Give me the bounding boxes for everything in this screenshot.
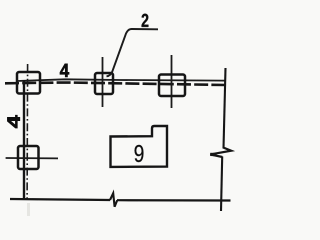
column K2 — [95, 73, 113, 94]
node A: grid centerline through column K1/K4 (vertical dash-dot) — [26, 64, 29, 199]
wire: thick dashed beam line (horizontal) — [5, 83, 226, 86]
label 4 (top) — [60, 64, 69, 77]
scan smudge — [27, 203, 30, 216]
wire: right wall line lower segment — [221, 157, 222, 212]
label 9 — [135, 145, 144, 162]
column K4 — [18, 146, 39, 169]
wire: right wall line upper segment — [224, 68, 226, 149]
callout leader for label 2 — [107, 29, 159, 76]
column K1 — [17, 72, 40, 94]
column K3 — [159, 75, 185, 97]
node C: centerline of column K3 (vertical) — [171, 55, 173, 108]
wire: bottom wall line left segment — [10, 199, 110, 200]
node D: centerline of column K4 (horizontal) — [6, 157, 58, 159]
node B: centerline of column K2 (vertical) — [102, 57, 104, 107]
break symbol on right wall — [210, 148, 231, 157]
wire: thin wall line (horizontal) — [17, 79, 225, 81]
detail region 9 outline — [111, 126, 168, 167]
label 2 — [142, 14, 149, 27]
wire: left wall line (vertical) — [23, 80, 25, 200]
break symbol on bottom wall — [110, 193, 117, 207]
wire: bottom wall line right segment — [117, 199, 231, 202]
label 4 (left, rotated) — [7, 115, 19, 128]
